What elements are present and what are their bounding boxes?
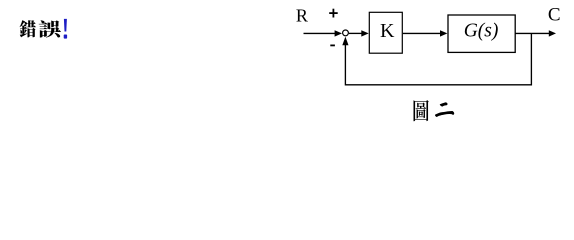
blue exclamation mark bar [64, 19, 67, 32]
wire block K to block G(s) [403, 32, 442, 34]
svg-text:G(s): G(s) [464, 20, 499, 41]
svg-text:C: C [548, 5, 561, 26]
wire R to summing junction [304, 32, 337, 34]
summing junction [343, 30, 349, 36]
error text char 錯 [19, 20, 35, 37]
svg-text:K: K [380, 20, 395, 42]
block G(s) [448, 15, 515, 52]
error text char 誤 [39, 20, 61, 37]
caption char 二 [435, 102, 454, 117]
wire summing junction to block K [349, 32, 363, 34]
feedback arrowhead into summing junction [342, 37, 348, 46]
feedback wire: down from output node, bottom run, up to summing junction [345, 33, 531, 84]
caption char 圖 [414, 100, 429, 121]
svg-text:R: R [296, 5, 308, 25]
blue exclamation mark dot [64, 35, 67, 39]
plus sign at summing junction [329, 9, 338, 18]
wire block G(s) to output C [515, 32, 550, 34]
minus sign at summing junction [330, 44, 335, 46]
block K [369, 12, 402, 53]
